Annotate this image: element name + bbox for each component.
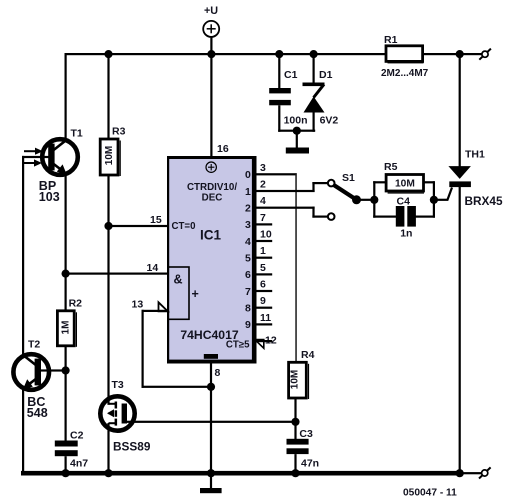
svg-text:C1: C1 xyxy=(284,69,298,81)
node junction R2 / T2 base / C2 xyxy=(62,366,70,374)
wire pin 8 to bottom rail and ground xyxy=(210,364,212,489)
svg-text:16: 16 xyxy=(217,143,229,155)
MOSFET T3 BSS89 xyxy=(100,379,151,454)
svg-text:R4: R4 xyxy=(301,349,315,361)
wire +U stem down to IC pin 16 xyxy=(210,37,212,156)
svg-text:14: 14 xyxy=(147,262,159,274)
node junction pin13 / pin8 xyxy=(207,383,215,391)
wire pin 13 route to ground line xyxy=(142,310,212,388)
IC1 pin 14 label xyxy=(147,262,159,274)
svg-text:103: 103 xyxy=(39,190,60,204)
svg-text:7: 7 xyxy=(245,286,251,298)
wire output 1 to S1 top contact xyxy=(257,182,329,192)
svg-text:050047 - 11: 050047 - 11 xyxy=(403,487,457,498)
wire left vertical T1 base to T2 collector xyxy=(22,156,24,356)
svg-text:47n: 47n xyxy=(301,457,319,469)
node junction C1 / top rail xyxy=(275,50,283,58)
svg-text:10: 10 xyxy=(260,229,272,241)
svg-text:BSS89: BSS89 xyxy=(113,440,151,454)
svg-text:S1: S1 xyxy=(342,172,355,184)
wire T1 emitter down chain xyxy=(65,175,67,312)
svg-text:2: 2 xyxy=(245,203,251,215)
wire R2 bottom to C2 xyxy=(65,346,67,441)
node junction R3 / pin15 wire xyxy=(104,222,112,230)
schematic number label xyxy=(403,487,457,498)
wire T3 source to rail xyxy=(107,423,109,474)
supply +U xyxy=(203,5,219,37)
terminal top right xyxy=(479,49,491,60)
svg-text:0: 0 xyxy=(245,169,251,181)
svg-text:5: 5 xyxy=(260,262,266,274)
svg-text:CT≥5: CT≥5 xyxy=(226,339,250,350)
svg-text:4: 4 xyxy=(260,195,266,207)
IC1 pin 15 label xyxy=(150,214,162,226)
svg-text:BRX45: BRX45 xyxy=(465,194,503,208)
wire top rail right segment xyxy=(422,53,482,55)
phototransistor T1 BP103 xyxy=(23,128,83,204)
capacitor C4 1n xyxy=(396,196,416,240)
svg-text:1: 1 xyxy=(260,245,266,257)
svg-text:1: 1 xyxy=(245,186,251,198)
svg-text:R1: R1 xyxy=(384,34,398,46)
node junction T3 source / rail xyxy=(104,469,112,477)
IC1 74HC4017 body xyxy=(167,156,257,364)
svg-text:+: + xyxy=(192,287,199,301)
resistor R4 10M xyxy=(289,349,315,399)
svg-text:&: & xyxy=(174,273,183,287)
capacitor C3 47n xyxy=(287,428,320,469)
svg-text:13: 13 xyxy=(132,299,144,311)
svg-text:4: 4 xyxy=(245,236,251,248)
wire R5/C4 left riser xyxy=(373,181,397,218)
IC1 pin 13 label xyxy=(132,299,144,311)
svg-text:R2: R2 xyxy=(69,298,83,310)
svg-text:2M2...4M7: 2M2...4M7 xyxy=(381,68,429,79)
node junction R4 / T3 gate / C3 xyxy=(291,418,299,426)
svg-text:9: 9 xyxy=(260,295,266,307)
ground symbol below C1/D1 xyxy=(286,131,309,154)
wire T3 gate to R4/C3 junction xyxy=(125,421,297,423)
resistor R3 10M xyxy=(100,126,125,177)
wire rail to bottom terminal xyxy=(460,472,482,474)
wire R5/C4 right riser xyxy=(413,181,435,218)
node junction TH1 / top rail xyxy=(456,50,464,58)
wire output 0 to R4 xyxy=(257,173,297,363)
wire D1 bottom to ground node xyxy=(313,113,315,132)
svg-text:IC1: IC1 xyxy=(200,227,222,242)
node junction pin14 wire / emitter line xyxy=(62,270,70,278)
svg-text:T2: T2 xyxy=(28,339,40,351)
IC1 pin 16 label xyxy=(217,143,229,155)
switch S1 xyxy=(328,172,361,220)
thyristor TH1 BRX45 xyxy=(448,149,503,208)
terminal bottom right xyxy=(479,467,491,478)
svg-text:15: 15 xyxy=(150,214,162,226)
wire pin 15 to IC xyxy=(109,225,169,227)
svg-text:8: 8 xyxy=(215,367,221,379)
IC1 right pin number labels xyxy=(260,162,277,347)
svg-text:4n7: 4n7 xyxy=(70,458,88,470)
svg-text:548: 548 xyxy=(27,406,48,420)
IC1 internal labels xyxy=(172,182,251,350)
svg-text:3: 3 xyxy=(245,219,251,231)
node junction C2 / rail xyxy=(62,469,70,477)
svg-text:10M: 10M xyxy=(289,370,300,389)
svg-text:8: 8 xyxy=(245,303,251,315)
wire top rail left segment xyxy=(65,53,387,55)
wire output 2 to S1 bottom contact xyxy=(257,207,329,218)
bottom ground rail xyxy=(21,471,462,476)
IC1 power marker xyxy=(206,162,216,172)
wire R3 top vertical xyxy=(107,53,109,139)
transistor T2 BC548 xyxy=(13,339,49,421)
svg-text:D1: D1 xyxy=(319,69,333,81)
IC1 internal ground bar xyxy=(204,354,218,359)
svg-text:9: 9 xyxy=(245,319,251,331)
resistor R5 10M xyxy=(384,161,424,194)
IC1 pin 12 edge marker xyxy=(255,340,264,349)
wire D1 top xyxy=(313,53,315,84)
IC1 unconnected output stubs xyxy=(257,223,273,342)
wire T1 collector vertical xyxy=(65,53,67,140)
wire C1 top xyxy=(278,53,280,88)
svg-text:T1: T1 xyxy=(71,128,83,140)
wire R4 bottom to C3 xyxy=(294,398,296,439)
wire TH1 anode vertical xyxy=(459,53,461,167)
ground symbol below pin 8 xyxy=(200,488,222,493)
IC1 pin 13 edge marker xyxy=(159,302,168,311)
svg-text:6V2: 6V2 xyxy=(320,115,339,127)
svg-text:6: 6 xyxy=(260,279,266,291)
svg-text:1M: 1M xyxy=(61,321,72,335)
IC1 output digits xyxy=(245,169,251,331)
wire C3 bottom to rail xyxy=(294,454,296,474)
node junction C3 / rail xyxy=(291,469,299,477)
wire left vertical T2 emitter to bottom rail xyxy=(22,389,24,474)
wire T2 base lead xyxy=(40,369,66,371)
node junction S1 / R5 / C4 xyxy=(370,196,378,204)
wire R3 bottom to T3 drain xyxy=(107,175,109,405)
svg-text:3: 3 xyxy=(260,162,266,174)
node junction +U / top rail xyxy=(207,50,215,58)
IC1 AND block xyxy=(168,267,199,319)
resistor R1 2M2...4M7 xyxy=(381,34,429,79)
node junction R5/C4 / gate wire xyxy=(430,196,438,204)
svg-text:10M: 10M xyxy=(395,178,415,189)
wire S1 pole to R5/C4 junction xyxy=(357,199,375,201)
node junction C1/D1 ground xyxy=(293,127,301,135)
svg-text:CT=0: CT=0 xyxy=(172,221,196,232)
svg-text:5: 5 xyxy=(245,253,251,265)
svg-text:1n: 1n xyxy=(400,228,412,240)
node junction R3 / top rail xyxy=(104,50,112,58)
zener diode D1 6V2 xyxy=(303,69,339,127)
wire TH1 cathode vertical xyxy=(459,186,461,474)
svg-text:DEC: DEC xyxy=(202,193,223,204)
svg-text:TH1: TH1 xyxy=(465,149,485,161)
svg-text:7: 7 xyxy=(260,212,266,224)
node junction D1 / top rail xyxy=(310,50,318,58)
node junction pin8 / rail xyxy=(207,469,215,477)
svg-text:6: 6 xyxy=(245,269,251,281)
wire C2 bottom to rail xyxy=(65,456,67,474)
svg-text:11: 11 xyxy=(260,312,271,324)
wire thyristor gate xyxy=(434,188,452,201)
IC1 pin 8 label xyxy=(215,367,221,379)
svg-text:100n: 100n xyxy=(284,115,308,127)
wire pin 14 to IC xyxy=(66,273,169,275)
svg-text:10M: 10M xyxy=(104,146,115,165)
svg-text:R5: R5 xyxy=(384,161,398,173)
node junction TH1 / rail xyxy=(456,469,464,477)
svg-text:CTRDIV10/: CTRDIV10/ xyxy=(187,182,237,193)
svg-text:+U: +U xyxy=(204,5,218,17)
svg-text:C2: C2 xyxy=(70,429,84,441)
svg-text:2: 2 xyxy=(260,179,266,191)
svg-text:T3: T3 xyxy=(112,379,124,391)
wire T1 base lead xyxy=(22,156,49,158)
svg-text:R3: R3 xyxy=(112,126,126,138)
capacitor C1 100n xyxy=(269,69,307,127)
resistor R2 1M xyxy=(57,298,82,347)
capacitor C2 4n7 xyxy=(55,429,88,469)
svg-text:C3: C3 xyxy=(299,428,313,440)
wire C1 bottom to ground node xyxy=(278,105,315,132)
svg-text:C4: C4 xyxy=(397,196,411,208)
